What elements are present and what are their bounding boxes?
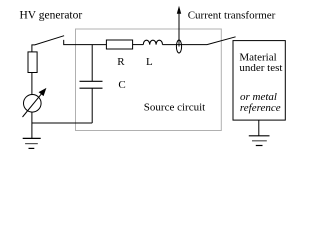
svg-text:Current transformer: Current transformer — [188, 9, 276, 21]
svg-text:C: C — [118, 79, 125, 91]
svg-text:under test: under test — [239, 62, 282, 74]
svg-text:HV generator: HV generator — [20, 9, 83, 21]
svg-text:Source circuit: Source circuit — [144, 102, 205, 114]
svg-text:reference: reference — [240, 102, 281, 114]
svg-text:R: R — [117, 56, 125, 68]
svg-text:L: L — [146, 56, 153, 68]
